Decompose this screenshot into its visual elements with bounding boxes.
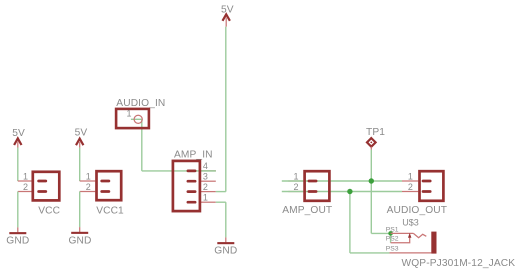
wire AUDIO_IN to AMP_IN pin 4 [142, 170, 216, 172]
wire net row pin 2 AMP_OUT to AUDIO_OUT [282, 191, 402, 193]
svg-text:2: 2 [408, 182, 413, 192]
svg-text:5V: 5V [221, 4, 234, 15]
svg-text:3: 3 [203, 172, 208, 182]
wire VCC pin 2 to GND [17, 192, 19, 228]
connector VCC pin 1 stub [39, 180, 46, 183]
svg-text:1: 1 [408, 171, 413, 181]
svg-text:5V: 5V [12, 128, 25, 139]
connector AUDIO_OUT pin 2 stub [423, 190, 430, 193]
connector AMP_IN pin 3 stub [188, 180, 195, 183]
wire AMP_IN pin 2 to 5V [216, 191, 226, 193]
svg-text:GND: GND [214, 245, 237, 256]
pin 1 lead AMP_IN [201, 201, 216, 203]
pin PS2 lead with jog [391, 238, 410, 243]
supply symbol 5V (top) arrow [223, 14, 230, 20]
svg-text:GND: GND [69, 236, 92, 247]
svg-text:AMP_IN: AMP_IN [174, 149, 213, 160]
junction dot pin2 net [347, 189, 352, 194]
connector AMP_OUT pin 1 stub [309, 180, 316, 183]
pad circle AUDIO_IN pin 1 [134, 115, 142, 123]
pin 2 lead VCC [18, 191, 32, 193]
svg-text:TP1: TP1 [366, 127, 385, 138]
connector VCC pin 2 stub [39, 190, 46, 193]
connector AUDIO_OUT pin 1 stub [423, 180, 430, 183]
svg-text:PS1: PS1 [386, 226, 399, 233]
svg-text:AUDIO_OUT: AUDIO_OUT [387, 205, 448, 216]
svg-text:1: 1 [203, 193, 208, 203]
svg-text:PS2: PS2 [386, 236, 399, 243]
svg-text:4: 4 [203, 161, 208, 171]
svg-text:VCC: VCC [38, 206, 60, 217]
wire TP1 net to PS1 [371, 232, 390, 234]
pin 2 lead AUDIO_OUT [402, 191, 418, 193]
connector AMP_OUT pin 2 stub [309, 190, 316, 193]
wire AUDIO_IN pin 1 horizontal [131, 118, 142, 120]
connector AMP_IN body [173, 161, 200, 211]
connector VCC1 body [97, 171, 122, 200]
pin 2 lead VCC1 [80, 191, 96, 193]
connector AMP_OUT body [305, 171, 330, 201]
ground GND (center) bar [217, 242, 234, 244]
ground GND (center) stem [225, 237, 227, 242]
supply symbol 5V (VCC) stem [17, 142, 19, 148]
svg-text:VCC1: VCC1 [96, 206, 124, 217]
wire 5V to VCC pin 1 [17, 148, 19, 182]
wire AMP_IN pin 1 to GND [216, 201, 226, 203]
svg-text:2: 2 [203, 182, 208, 192]
svg-text:2: 2 [23, 182, 28, 192]
wire VCC1 pin 2 to GND [79, 192, 81, 228]
pin 2 lead AMP_OUT [288, 191, 303, 193]
svg-text:2: 2 [86, 182, 91, 192]
jack sleeve bar [431, 232, 436, 254]
svg-text:5V: 5V [75, 128, 88, 139]
pin 3 lead AMP_IN [201, 180, 216, 182]
junction dot PS1 [388, 231, 393, 236]
svg-text:1: 1 [86, 171, 91, 181]
ground GND (VCC1) stem [79, 227, 81, 232]
ground GND (VCC) bar [9, 232, 26, 234]
pin 4 lead AMP_IN [201, 170, 216, 172]
wire pin2 net horizontal to PS3 [350, 252, 390, 254]
svg-text:1: 1 [23, 171, 28, 181]
connector VCC1 pin 2 stub [102, 190, 109, 193]
svg-text:WQP-PJ301M-12_JACK: WQP-PJ301M-12_JACK [402, 258, 516, 269]
svg-text:1: 1 [293, 171, 298, 181]
pin 1 lead VCC [18, 180, 32, 182]
ground GND (VCC1) bar [71, 232, 88, 234]
svg-text:PS3: PS3 [386, 245, 399, 252]
connector AMP_IN pin 4 stub [188, 170, 195, 173]
pin 2 lead AMP_IN [201, 191, 216, 193]
supply symbol 5V (VCC1) stem [79, 142, 81, 148]
wire pin2 net vertical to PS3 [349, 192, 351, 253]
test point TP1 center dot [370, 142, 372, 144]
svg-text:U$3: U$3 [402, 218, 419, 228]
jack switch arrow [408, 233, 411, 238]
wire AMP_IN pin 4 over lead [201, 170, 216, 172]
connector AUDIO_OUT body [420, 171, 444, 201]
pin 1 lead AMP_OUT [288, 180, 303, 182]
pin PS3 lead [390, 252, 432, 254]
svg-text:1: 1 [126, 109, 131, 119]
pin PS1 lead [391, 232, 414, 234]
pad AUDIO_IN body [116, 109, 149, 128]
test point TP1 stem [370, 147, 372, 150]
ground GND (VCC) stem [17, 227, 19, 232]
wire net row pin 1 AMP_OUT to AUDIO_OUT [282, 180, 402, 182]
wire PS1 to PS2 [390, 233, 392, 242]
wire 5V to VCC1 pin 1 [79, 148, 81, 181]
svg-text:GND: GND [6, 236, 29, 247]
pin 1 lead AUDIO_OUT [402, 180, 418, 182]
supply symbol 5V (VCC) arrow [14, 138, 21, 145]
wire AUDIO_IN down [141, 119, 143, 171]
junction dot TP1 net [369, 178, 374, 183]
pin 1 lead VCC1 [80, 180, 96, 182]
svg-text:AMP_OUT: AMP_OUT [282, 205, 332, 216]
supply symbol 5V (top) stem [225, 18, 227, 27]
supply symbol 5V (VCC1) arrow [76, 139, 83, 146]
connector VCC body [33, 172, 60, 201]
wire GND vertical [225, 202, 227, 237]
jack tip spring zigzag [413, 233, 426, 237]
connector VCC1 pin 1 stub [102, 180, 109, 183]
connector AMP_IN pin 2 stub [188, 190, 195, 193]
connector AMP_IN pin 1 stub [188, 201, 195, 204]
wire TP1 vertical [370, 150, 372, 234]
svg-text:AUDIO_IN: AUDIO_IN [116, 98, 165, 109]
svg-text:2: 2 [293, 182, 298, 192]
test point TP1 diamond [367, 138, 376, 147]
wire 5V vertical [225, 27, 227, 192]
